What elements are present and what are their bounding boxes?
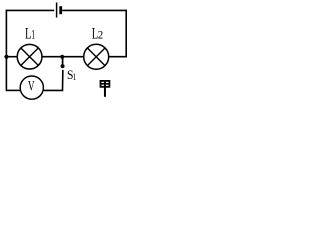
svg-text:1: 1 (73, 72, 77, 82)
wire: bottom left corner to voltmeter (6, 89, 21, 91)
switch S1 blade (62, 70, 64, 90)
battery short thick plate (59, 6, 62, 14)
battery long plate (56, 3, 58, 18)
wire: L1 to L2 (42, 56, 84, 58)
svg-text:V: V (28, 79, 35, 95)
switch S1 contact dot (61, 64, 65, 68)
label jia (Chinese character, drawn strokes) (101, 81, 110, 97)
svg-text:1: 1 (31, 27, 35, 42)
wire: L2 to right vertical (109, 56, 127, 58)
wire: left vertical (5, 10, 7, 92)
node: junction dot middle (60, 55, 64, 59)
lamp L2 (84, 44, 109, 69)
wire: top left segment to battery (6, 9, 55, 11)
voltmeter V (20, 76, 43, 99)
wire: main row left dot to L1 (6, 56, 17, 58)
svg-text:2: 2 (98, 28, 103, 42)
wire: right vertical (125, 10, 127, 58)
lamp L1 (17, 44, 42, 69)
background (0, 0, 132, 106)
wire: battery to top right corner (62, 9, 127, 11)
wire: switch upper stub (62, 57, 64, 64)
node: junction dot left (4, 55, 8, 59)
wire: voltmeter to switch blade bottom (43, 89, 64, 91)
